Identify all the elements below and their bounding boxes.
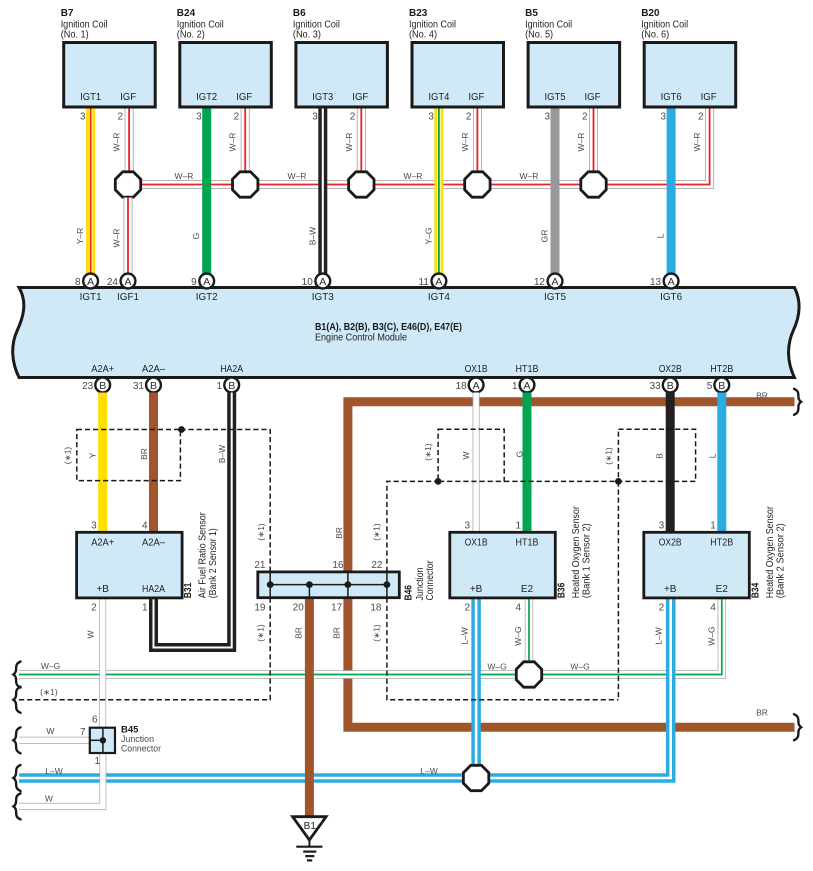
- svg-text:W–G: W–G: [570, 662, 589, 672]
- wire G from ECM pin 1 HT1B to B36 pin 1: [523, 393, 532, 533]
- svg-text:A: A: [523, 380, 530, 392]
- svg-text:HT2B: HT2B: [710, 538, 733, 549]
- svg-text:2: 2: [466, 111, 472, 122]
- svg-text:B23: B23: [409, 8, 428, 19]
- wire W-G ground trunk from left break to B34 E2 pin 4: [19, 598, 722, 675]
- junction octagon J4 on W-R bus: [465, 172, 490, 197]
- ignition coil B23 (No. 4): [409, 8, 504, 107]
- svg-text:IGT6: IGT6: [661, 92, 682, 103]
- wire BR trunk lower from B46 pin 17 to right break: [348, 598, 795, 728]
- svg-text:2: 2: [659, 603, 665, 614]
- svg-text:Heated Oxygen Sensor: Heated Oxygen Sensor: [571, 506, 582, 599]
- svg-text:IGT6: IGT6: [660, 291, 682, 303]
- svg-text:1: 1: [94, 756, 100, 767]
- svg-text:IGF: IGF: [468, 92, 484, 103]
- dashed trunk (*1) from left break to B46 pin 19: [19, 598, 270, 700]
- svg-text:IGT1: IGT1: [80, 291, 102, 303]
- svg-text:(∗1): (∗1): [40, 687, 58, 697]
- svg-text:IGF: IGF: [352, 92, 368, 103]
- svg-text:A: A: [668, 276, 675, 288]
- ECM pin 8(A) IGT1: [83, 274, 98, 289]
- svg-text:B20: B20: [641, 8, 660, 19]
- svg-text:+B: +B: [664, 584, 677, 595]
- junction dot B-box: [615, 478, 622, 485]
- svg-text:HT1B: HT1B: [516, 538, 539, 549]
- wire W-R from B5 IGF pin 2: [589, 107, 598, 172]
- svg-text:2: 2: [350, 111, 356, 122]
- label B36 rotated: [556, 506, 592, 599]
- svg-text:Engine Control Module: Engine Control Module: [315, 332, 407, 344]
- wire Y from ECM pin 23 A2A+ to B31 pin 3: [98, 393, 107, 533]
- svg-text:12: 12: [534, 277, 546, 288]
- svg-text:IGT2: IGT2: [196, 291, 218, 303]
- svg-text:B36: B36: [556, 582, 567, 598]
- svg-text:W–R: W–R: [520, 171, 539, 181]
- svg-text:3: 3: [312, 111, 318, 122]
- svg-text:24: 24: [107, 277, 119, 288]
- svg-text:W: W: [86, 630, 96, 638]
- wire BR from ECM pin 31 A2A- to B31 pin 4: [149, 393, 158, 533]
- dashed wire (*1) from box to B46 pin 21: [180, 430, 270, 572]
- svg-text:GR: GR: [540, 230, 550, 243]
- svg-text:IGF: IGF: [585, 92, 601, 103]
- wire W from left break to B45 pin 7: [19, 737, 90, 744]
- svg-text:A: A: [203, 276, 210, 288]
- svg-text:B5: B5: [525, 8, 538, 19]
- svg-text:W–R: W–R: [404, 171, 423, 181]
- svg-text:B6: B6: [293, 8, 306, 19]
- svg-text:A2A+: A2A+: [91, 363, 114, 375]
- svg-text:IGF: IGF: [701, 92, 717, 103]
- svg-text:B46: B46: [404, 585, 415, 601]
- svg-text:18: 18: [455, 381, 467, 392]
- svg-text:E2: E2: [521, 584, 534, 595]
- wire W-R from B7 IGF pin 2: [125, 107, 134, 172]
- svg-text:L–W: L–W: [654, 627, 664, 644]
- wire G from B24 IGT2 pin 3 to ECM: [202, 107, 211, 274]
- wire W-G from B36 E2 pin 4 to junction: [525, 598, 533, 675]
- label B31 rotated: [183, 512, 219, 599]
- svg-text:4: 4: [515, 603, 521, 614]
- dashed wire (*1) from B46 pin 22 along y=481: [387, 481, 619, 572]
- break symbol left W pin1: [13, 793, 20, 819]
- svg-text:OX2B: OX2B: [659, 363, 682, 375]
- svg-text:B–W: B–W: [217, 445, 227, 463]
- svg-text:B1: B1: [304, 821, 317, 832]
- svg-text:W–R: W–R: [175, 171, 194, 181]
- svg-text:2: 2: [465, 603, 471, 614]
- svg-text:W–R: W–R: [692, 133, 702, 152]
- wire BR from B46 pin 20 to ground B1: [305, 598, 314, 816]
- ignition coil B24 (No. 2): [177, 8, 271, 107]
- svg-text:BR: BR: [334, 527, 344, 539]
- wire W-R from B6 IGF pin 2: [357, 107, 366, 172]
- svg-text:W–G: W–G: [41, 661, 60, 671]
- svg-text:HT1B: HT1B: [516, 363, 539, 375]
- heated oxygen sensor B36: [450, 532, 556, 598]
- wire B from ECM pin 33 OX2B to B34 pin 3: [666, 393, 675, 533]
- svg-text:(∗1): (∗1): [372, 523, 382, 541]
- svg-text:(Bank 2 Sensor 2): (Bank 2 Sensor 2): [775, 523, 786, 598]
- svg-text:IGF: IGF: [236, 92, 252, 103]
- svg-text:W–G: W–G: [487, 662, 506, 672]
- svg-text:A: A: [473, 380, 480, 392]
- svg-text:5: 5: [707, 381, 713, 392]
- svg-text:L–W: L–W: [420, 766, 437, 776]
- svg-text:W: W: [45, 794, 53, 804]
- ignition coil B20 (No. 6): [641, 8, 736, 107]
- svg-text:A: A: [435, 276, 442, 288]
- svg-text:Y–R: Y–R: [75, 228, 85, 245]
- wire W-R from B24 IGF pin 2: [241, 107, 250, 172]
- svg-text:(Bank 2 Sensor 1): (Bank 2 Sensor 1): [208, 528, 219, 598]
- svg-text:W–R: W–R: [112, 133, 122, 152]
- svg-text:(∗1): (∗1): [62, 447, 72, 465]
- svg-text:L: L: [656, 233, 666, 238]
- break symbol left dashed trunk: [13, 687, 20, 713]
- wire B–W from B6 IGT3 pin 3 to ECM: [318, 107, 327, 274]
- svg-text:2: 2: [234, 111, 240, 122]
- svg-text:W–R: W–R: [228, 133, 238, 152]
- svg-text:A2A–: A2A–: [142, 538, 165, 549]
- svg-text:19: 19: [254, 603, 266, 614]
- svg-text:B7: B7: [61, 8, 74, 19]
- junction octagon on W-G trunk: [516, 662, 541, 687]
- svg-text:OX1B: OX1B: [465, 363, 488, 375]
- label B46 rotated: [404, 560, 436, 601]
- svg-text:21: 21: [254, 560, 266, 571]
- wire L-W from B36 +B pin 2 to junction: [471, 598, 481, 778]
- wire W-G stub from B34 E2 pin 4: [718, 598, 726, 640]
- svg-text:B24: B24: [177, 8, 196, 19]
- svg-text:OX1B: OX1B: [465, 538, 488, 549]
- ignition coil B5 (No. 5): [525, 8, 620, 107]
- svg-text:B: B: [99, 380, 106, 392]
- svg-text:3: 3: [659, 520, 665, 531]
- svg-text:31: 31: [133, 381, 145, 392]
- svg-text:3: 3: [91, 520, 97, 531]
- svg-text:+B: +B: [96, 584, 109, 595]
- svg-text:3: 3: [465, 520, 471, 531]
- svg-text:IGT4: IGT4: [428, 92, 449, 103]
- svg-text:L–W: L–W: [460, 627, 470, 644]
- wire W from B31 +B pin 2 to B45 pin 6: [99, 598, 106, 728]
- ECM pin 23(B) A2A+: [95, 378, 110, 393]
- svg-text:IGT3: IGT3: [312, 291, 334, 303]
- svg-text:W–R: W–R: [460, 133, 470, 152]
- label B34 rotated: [750, 506, 786, 599]
- svg-text:BR: BR: [294, 627, 304, 639]
- svg-text:Connector: Connector: [121, 744, 161, 755]
- svg-text:(∗1): (∗1): [423, 443, 433, 461]
- svg-text:G: G: [515, 451, 525, 458]
- svg-text:B–W: B–W: [307, 227, 317, 245]
- svg-text:BR: BR: [331, 627, 341, 639]
- svg-text:3: 3: [428, 111, 434, 122]
- wire L from ECM pin 5 HT2B to B34 pin 1: [717, 393, 726, 533]
- wire W-R from B23 IGF pin 2: [473, 107, 482, 172]
- wire Y–G from B23 IGT4 pin 3 to ECM: [434, 107, 443, 274]
- svg-text:W–R: W–R: [288, 171, 307, 181]
- wire L-W power trunk from left break to B34 +B pin 2: [19, 598, 671, 778]
- svg-text:13: 13: [650, 277, 662, 288]
- svg-text:23: 23: [82, 381, 94, 392]
- svg-text:+B: +B: [470, 584, 483, 595]
- svg-text:B31: B31: [183, 582, 194, 598]
- svg-text:11: 11: [419, 277, 430, 288]
- break symbol left W-G: [13, 662, 20, 688]
- wire W-R from junction J1 to ECM pin 24 IGF1: [124, 198, 133, 275]
- svg-text:E2: E2: [716, 584, 729, 595]
- svg-text:1: 1: [710, 520, 716, 531]
- svg-text:HA2A: HA2A: [142, 584, 165, 595]
- svg-text:(∗1): (∗1): [256, 624, 266, 642]
- ECM pin 18(A) OX1B: [469, 378, 484, 393]
- svg-text:3: 3: [196, 111, 202, 122]
- dashed net (*1) box around B wire: [618, 429, 695, 481]
- svg-text:3: 3: [661, 111, 667, 122]
- svg-text:(∗1): (∗1): [372, 624, 382, 642]
- svg-text:16: 16: [332, 560, 344, 571]
- ECM pin 1(B) HA2A: [224, 378, 239, 393]
- ECM pin 24(A) IGF1: [121, 274, 136, 289]
- ECM pin 12(A) IGT5: [548, 274, 563, 289]
- svg-text:A: A: [87, 276, 94, 288]
- svg-text:A: A: [319, 276, 326, 288]
- svg-text:2: 2: [582, 111, 588, 122]
- svg-text:W–R: W–R: [344, 133, 354, 152]
- wire W from ECM pin 18 OX1B to B36 pin 3: [473, 393, 480, 533]
- svg-text:IGT3: IGT3: [312, 92, 333, 103]
- svg-text:(∗1): (∗1): [256, 523, 266, 541]
- ignition coil B6 (No. 3): [293, 8, 388, 107]
- svg-text:IGT2: IGT2: [196, 92, 217, 103]
- wire GR from B5 IGT5 pin 3 to ECM: [551, 107, 560, 274]
- dashed wire (*1) B46 pin 18 riser to B-box riser: [387, 598, 619, 700]
- break symbol left L-W: [13, 765, 20, 791]
- svg-text:6: 6: [92, 715, 98, 726]
- svg-text:(No. 5): (No. 5): [525, 30, 553, 41]
- svg-text:Connector: Connector: [425, 560, 436, 601]
- wire L-W stub from B34 +B pin 2: [666, 598, 676, 640]
- svg-text:BR: BR: [756, 390, 768, 400]
- svg-text:B: B: [718, 380, 725, 392]
- svg-text:HA2A: HA2A: [220, 363, 243, 375]
- heated oxygen sensor B34: [644, 532, 750, 598]
- svg-text:W–R: W–R: [576, 133, 586, 152]
- svg-text:18: 18: [370, 603, 382, 614]
- svg-text:Y: Y: [88, 452, 98, 458]
- svg-text:B34: B34: [750, 582, 761, 598]
- junction dot on dashed net: [178, 426, 185, 433]
- svg-text:1: 1: [512, 381, 518, 392]
- junction octagon J1 on W-R bus: [115, 172, 140, 197]
- svg-text:IGF1: IGF1: [117, 291, 139, 303]
- svg-text:3: 3: [544, 111, 550, 122]
- ECM pin 33(B) OX2B: [663, 378, 678, 393]
- wire L from B20 IGT6 pin 3 to ECM: [667, 107, 676, 274]
- svg-text:7: 7: [80, 727, 86, 738]
- svg-text:W: W: [46, 726, 54, 736]
- svg-text:Y–G: Y–G: [423, 227, 433, 244]
- ECM pin 9(A) IGT2: [199, 274, 214, 289]
- break symbol right BR lower: [794, 714, 801, 740]
- svg-text:10: 10: [302, 277, 314, 288]
- ECM pin 11(A) IGT4: [432, 274, 447, 289]
- svg-text:BR: BR: [756, 708, 768, 718]
- svg-text:HT2B: HT2B: [710, 363, 733, 375]
- wire W-R bus (IGF common) with corner to B20 IGF pin 2: [128, 107, 710, 185]
- ECM pin 5(B) HT2B: [714, 378, 729, 393]
- svg-text:B: B: [655, 453, 665, 459]
- svg-text:20: 20: [293, 603, 305, 614]
- wire Y–R from B7 IGT1 pin 3 to ECM: [86, 107, 95, 274]
- svg-text:IGT5: IGT5: [544, 291, 566, 303]
- svg-text:IGT4: IGT4: [428, 291, 450, 303]
- svg-text:33: 33: [650, 381, 662, 392]
- junction octagon on L-W trunk: [463, 765, 488, 790]
- svg-text:(∗1): (∗1): [603, 447, 613, 465]
- svg-text:9: 9: [191, 277, 197, 288]
- junction octagon J2 on W-R bus: [233, 172, 258, 197]
- break symbol left W pin7: [13, 727, 20, 753]
- svg-text:G: G: [191, 233, 201, 240]
- junction dot W-box: [435, 478, 442, 485]
- svg-text:IGT1: IGT1: [80, 92, 101, 103]
- svg-text:A2A+: A2A+: [91, 538, 114, 549]
- svg-text:B: B: [150, 380, 157, 392]
- svg-text:B: B: [228, 380, 235, 392]
- svg-text:(No. 3): (No. 3): [293, 30, 321, 41]
- svg-text:8: 8: [75, 277, 81, 288]
- svg-text:IGT5: IGT5: [545, 92, 566, 103]
- svg-text:22: 22: [371, 560, 383, 571]
- air fuel ratio sensor B31: [77, 532, 183, 598]
- dashed net (*1) box around Y and BR wires: [77, 430, 181, 481]
- svg-text:A: A: [551, 276, 558, 288]
- svg-text:(No. 6): (No. 6): [641, 30, 669, 41]
- svg-text:1: 1: [142, 603, 148, 614]
- svg-text:A2A–: A2A–: [142, 363, 165, 375]
- junction octagon J5 on W-R bus: [581, 172, 606, 197]
- svg-text:(No. 1): (No. 1): [61, 30, 89, 41]
- svg-text:1: 1: [515, 520, 521, 531]
- svg-text:OX2B: OX2B: [659, 538, 682, 549]
- junction connector B46: [258, 572, 400, 598]
- dashed wire (*1) down from B-box corner to bottom dashed trunk: [617, 481, 619, 699]
- wire B-W from ECM pin 1 HA2A to B31 pin 1: [154, 393, 232, 648]
- svg-text:(Bank 1 Sensor 2): (Bank 1 Sensor 2): [581, 523, 592, 598]
- svg-text:3: 3: [80, 111, 86, 122]
- svg-text:(No. 4): (No. 4): [409, 30, 437, 41]
- svg-text:W–G: W–G: [513, 626, 523, 645]
- junction connector B45: [90, 728, 115, 753]
- ECM module band B1(A),B2(B),B3(C),E46(D),E47(E) Engine Control Module: [13, 288, 799, 378]
- svg-text:4: 4: [710, 603, 716, 614]
- svg-text:BR: BR: [139, 448, 149, 460]
- svg-text:W: W: [461, 451, 471, 459]
- ground symbol B1: [293, 817, 327, 861]
- svg-text:2: 2: [698, 111, 704, 122]
- ignition coil B7 (No. 1): [61, 8, 156, 107]
- svg-text:W–G: W–G: [707, 626, 717, 645]
- svg-text:1: 1: [217, 381, 223, 392]
- ECM pin 31(B) A2A–: [146, 378, 161, 393]
- svg-text:IGF: IGF: [120, 92, 136, 103]
- svg-text:B: B: [667, 380, 674, 392]
- svg-text:L: L: [708, 453, 718, 458]
- svg-text:(No. 2): (No. 2): [177, 30, 205, 41]
- ECM pin 10(A) IGT3: [315, 274, 330, 289]
- dashed net (*1) box around W wire: [438, 429, 504, 481]
- svg-text:Air Fuel Ratio Sensor: Air Fuel Ratio Sensor: [198, 512, 209, 599]
- ECM pin 1(A) HT1B: [520, 378, 535, 393]
- junction octagon J3 on W-R bus: [349, 172, 374, 197]
- wire W from B45 pin 1 to left break: [19, 753, 103, 806]
- svg-text:2: 2: [118, 111, 124, 122]
- svg-text:A: A: [124, 276, 131, 288]
- wire BR trunk upper from junction connector B46 pin 16 to right break: [348, 402, 795, 572]
- svg-text:W–R: W–R: [112, 229, 122, 248]
- svg-text:Heated Oxygen Sensor: Heated Oxygen Sensor: [765, 506, 776, 599]
- svg-text:4: 4: [142, 520, 148, 531]
- svg-text:L–W: L–W: [45, 766, 62, 776]
- ECM pin 13(A) IGT6: [664, 274, 679, 289]
- break symbol right BR upper: [794, 389, 801, 415]
- svg-text:2: 2: [91, 603, 97, 614]
- svg-text:17: 17: [331, 603, 343, 614]
